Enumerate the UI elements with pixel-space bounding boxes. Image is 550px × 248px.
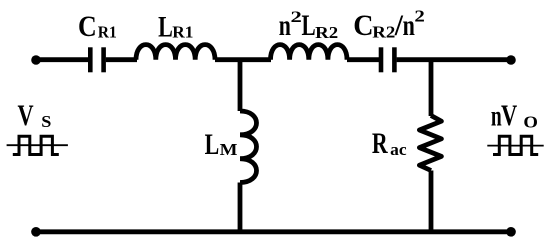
inductor LR1	[136, 45, 215, 60]
terminal node top-right	[506, 55, 516, 65]
svg-text:ac: ac	[390, 140, 407, 159]
svg-text:2: 2	[414, 7, 424, 26]
svg-text:L: L	[205, 128, 220, 161]
terminal node top-left	[31, 55, 41, 65]
wire LM bottom	[238, 183, 243, 232]
svg-text:R2: R2	[315, 23, 338, 42]
capacitor CR2/n2	[381, 47, 394, 72]
terminal node bottom-right	[506, 227, 516, 237]
capacitor CR1	[90, 47, 103, 72]
svg-text:C: C	[78, 11, 97, 44]
svg-text:V: V	[501, 98, 517, 132]
wire Rac bottom	[429, 171, 434, 232]
wire top-left segment	[36, 57, 88, 62]
label VS	[18, 98, 52, 132]
svg-text:n: n	[403, 9, 416, 42]
label CR1	[78, 11, 117, 44]
label n2LR2	[279, 8, 339, 41]
svg-text:R: R	[372, 127, 389, 160]
nVO square-wave symbol axis	[487, 145, 543, 147]
label CR2/n2	[353, 7, 425, 42]
label Rac	[372, 127, 407, 160]
svg-text:L: L	[158, 10, 173, 43]
VS square-wave symbol	[13, 136, 59, 154]
node junction Rac tap	[429, 60, 434, 116]
inductor LM	[240, 111, 257, 183]
svg-text:S: S	[41, 112, 51, 131]
node junction LM tap	[238, 60, 243, 111]
svg-text:V: V	[18, 98, 34, 132]
wire LR1 to LR2 through tap	[215, 57, 271, 62]
svg-text:M: M	[220, 140, 238, 159]
svg-text:L: L	[301, 8, 315, 41]
svg-text:O: O	[523, 112, 538, 131]
wire CR1 to LR1	[106, 57, 137, 62]
terminal node bottom-left	[31, 227, 41, 237]
svg-text:n: n	[491, 99, 502, 132]
svg-text:R1: R1	[172, 23, 193, 42]
VS square-wave symbol axis	[7, 144, 68, 146]
inductor n2LR2	[271, 45, 348, 60]
nVO square-wave symbol	[493, 136, 538, 154]
svg-text:C: C	[353, 9, 373, 42]
svg-text:n: n	[279, 8, 291, 41]
wire CR2 to right terminal through Rac tap	[397, 57, 511, 62]
label LM	[205, 128, 238, 161]
label LR1	[158, 10, 193, 43]
svg-text:2: 2	[291, 9, 302, 26]
resistor Rac	[419, 116, 441, 171]
svg-text:R2: R2	[372, 22, 395, 41]
wire bottom rail	[36, 229, 511, 234]
wire LR2 to CR2	[347, 57, 379, 62]
label nVO	[491, 98, 538, 132]
svg-text:R1: R1	[98, 22, 117, 42]
